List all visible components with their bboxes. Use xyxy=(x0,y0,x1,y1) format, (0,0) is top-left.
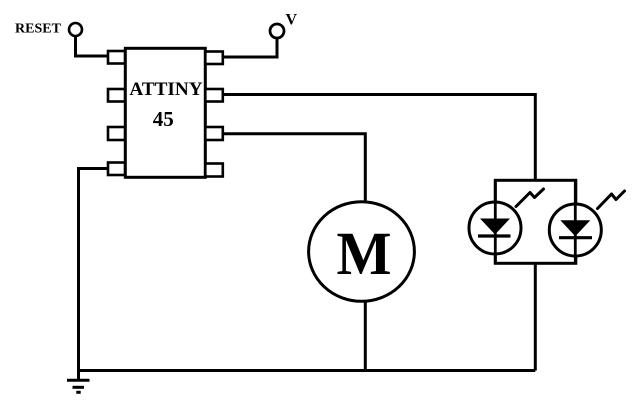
svg-text:ATTINY: ATTINY xyxy=(129,79,202,100)
svg-text:45: 45 xyxy=(153,107,174,131)
svg-text:M: M xyxy=(337,221,392,288)
svg-text:RESET: RESET xyxy=(15,22,62,37)
svg-text:V: V xyxy=(286,12,298,29)
